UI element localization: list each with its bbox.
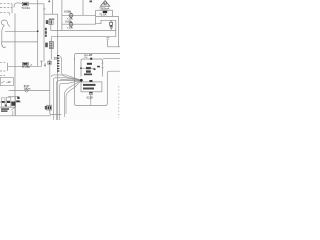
svg-text:24Dm: 24Dm — [24, 88, 31, 91]
svg-text:0128: 0128 — [87, 95, 93, 99]
svg-text:+10k: +10k — [67, 25, 74, 29]
svg-text:407: 407 — [43, 62, 47, 67]
svg-text:T1.6A: T1.6A — [99, 13, 106, 17]
svg-text:0.68k: 0.68k — [64, 10, 72, 14]
svg-text:10: 10 — [53, 57, 57, 61]
svg-text:2F01: 2F01 — [49, 17, 55, 21]
svg-text:0.68k: 0.68k — [65, 19, 73, 23]
svg-text:T3.15A: T3.15A — [21, 6, 30, 10]
svg-text:T500mA: T500mA — [99, 6, 109, 10]
svg-text:~40: ~40 — [6, 80, 11, 84]
svg-text:T1.25A: T1.25A — [22, 65, 31, 69]
